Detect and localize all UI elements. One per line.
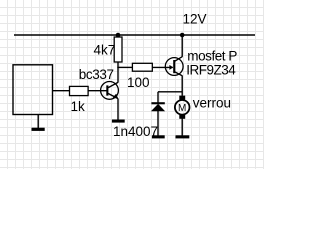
node junction on rail at 4k7 [116,33,121,38]
svg-text:4k7: 4k7 [94,43,116,58]
wire rail to 4k7 top [117,35,119,38]
ground under motor [176,135,190,138]
motor M1 verrou [175,96,190,119]
wire rail to mosfet source [181,35,183,57]
svg-text:1n4007: 1n4007 [113,124,158,139]
resistor 100 [132,63,152,71]
svg-text:M: M [178,103,186,114]
diode D1 1n4007 [151,102,165,111]
ground under diode [152,135,165,138]
svg-text:mosfet P: mosfet P [187,49,237,64]
wire down to diode cathode [157,92,159,103]
svg-text:verrou: verrou [193,96,231,111]
transistor Q1 bc337 [101,82,119,100]
svg-text:bc337: bc337 [79,67,114,82]
wire node to 100 resistor [117,66,133,68]
svg-text:12V: 12V [183,11,207,26]
ground under box [32,128,45,131]
svg-text:IRF9Z34: IRF9Z34 [186,63,236,78]
left input box [13,65,53,115]
wire motor to ground [181,118,183,136]
resistor 1k [70,86,89,95]
wire bc337 emitter down [117,98,119,120]
resistor 4k7 [114,37,122,62]
wire diode anode down [157,111,159,136]
wire 12V top rail [14,34,255,36]
wire box bottom to ground [37,115,39,129]
wire 4k7 bottom to bc337 collector [117,62,119,83]
node junction on rail at mosfet source [180,33,185,38]
wire mosfet drain down to motor [181,76,183,96]
mosfet U1 (P-channel) [165,57,183,76]
wire box to 1k [53,90,71,92]
ground at bc337 emitter [112,120,125,123]
svg-text:1k: 1k [71,99,86,114]
svg-text:100: 100 [127,75,150,90]
wire drain tee to diode [158,91,182,93]
wire 1k to bc337 base [88,90,107,92]
wire 100 resistor to mosfet gate [152,66,173,68]
